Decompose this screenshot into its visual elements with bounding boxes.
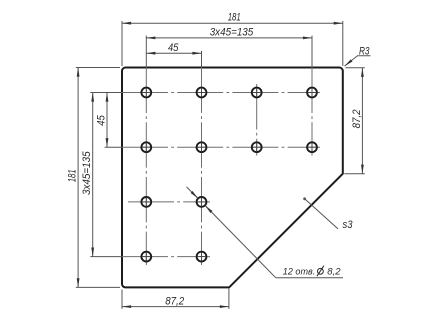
hole H2 [197,88,207,98]
svg-text:12 отв.: 12 отв. [283,267,316,278]
svg-text:87,2: 87,2 [351,109,363,128]
extension lines left dimension 181 [76,68,120,288]
dimension 45 top [146,42,201,54]
extension line left dimension 45 [105,146,122,148]
extension lines top dimension 3x45=135 [146,36,312,68]
svg-text:181: 181 [228,12,241,24]
hole H12 [197,252,207,262]
center line row 1 [122,92,320,94]
hole H7 [252,142,262,152]
center line column 4 [311,68,313,156]
hole H10 [197,197,207,207]
dimension 181 top [122,12,343,24]
dimension 45 left [96,93,108,148]
dimension 3x45=135 left [81,93,93,257]
svg-text:3x45=135: 3x45=135 [81,151,93,195]
center line column 3 [256,84,258,156]
svg-text:87,2: 87,2 [165,296,184,308]
hole H4 [307,88,317,98]
center line row 4 [122,256,210,258]
hole H8 [307,142,317,152]
dimension 87,2 right [351,68,363,174]
leader s3 [303,197,353,230]
hole H9 [141,197,151,207]
svg-text:45: 45 [96,115,108,126]
hole H1 [141,88,151,98]
svg-text:R3: R3 [359,45,370,57]
extension line top dimension 45 [201,51,203,68]
leader R3 [345,45,371,66]
center line column 1 [145,68,147,266]
dimension 3x45=135 top [146,27,312,39]
svg-text:s3: s3 [343,219,354,231]
extension lines right dimension 87,2 [344,68,365,174]
svg-text:3x45=135: 3x45=135 [210,27,254,39]
dimension 87,2 bottom [122,296,229,308]
svg-text:45: 45 [168,42,179,54]
svg-text:8,2: 8,2 [327,267,341,278]
leader 12 holes diameter 8,2 [187,187,344,278]
svg-text:181: 181 [67,169,79,182]
hole H11 [141,252,151,262]
hole H6 [197,142,207,152]
center line column 2 [201,68,203,266]
extension lines top dimension 181 [122,21,343,66]
center line row 3 [128,201,210,203]
hole H5 [141,142,151,152]
extension lines left dimension 3x45=135 [90,93,122,257]
hole H3 [252,88,262,98]
dimension 181 left [67,68,79,288]
center line row 2 [122,146,320,148]
extension lines bottom dimension 87,2 [122,289,229,309]
plate outline [122,68,343,288]
